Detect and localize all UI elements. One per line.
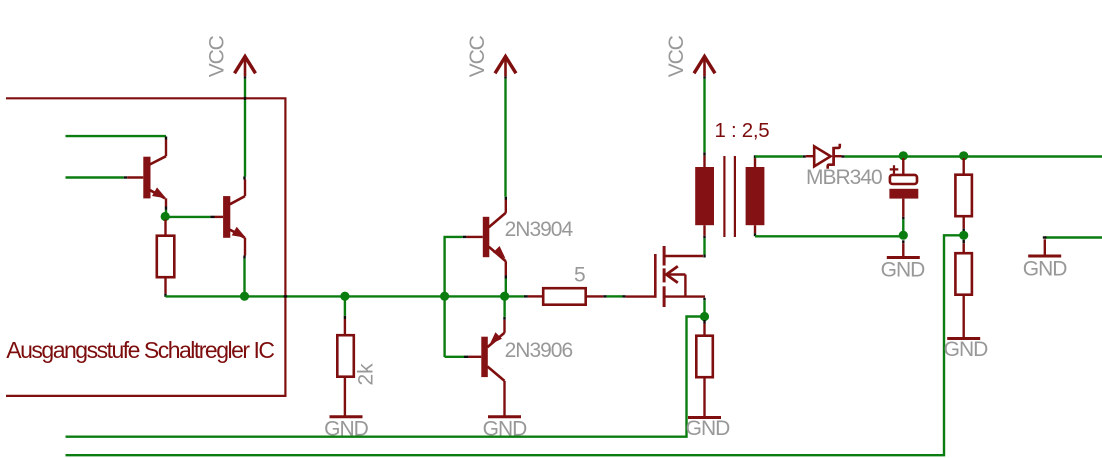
wire right gnd stub [1045, 236, 1102, 238]
resistor R-box [157, 220, 175, 294]
label 1 : 2,5 [715, 119, 770, 142]
wire cap bottom to node [902, 219, 904, 235]
resistor 2k [337, 319, 354, 416]
transistor Q1 npn [127, 140, 169, 207]
black joint vcc3 stem [703, 76, 705, 79]
black joint cap bottom [902, 217, 904, 220]
svg-text:GND: GND [686, 417, 731, 440]
node cap bottom junction dot [899, 231, 908, 240]
black joint diode cathode [842, 155, 845, 157]
black joint 3904 collector [505, 197, 507, 200]
label Ausgangsstufe Schaltregler IC [6, 337, 274, 363]
wire R5 to gate [607, 295, 623, 297]
black joint transformer primary bottom [703, 236, 705, 239]
vcc arrow 2 [495, 57, 516, 77]
svg-text:VCC: VCC [206, 35, 229, 77]
black joint box top crossing [244, 97, 246, 100]
black joint secondary bottom [754, 233, 756, 236]
junction black joint B-base [124, 176, 127, 178]
resistor R-source [696, 324, 713, 417]
svg-text:5: 5 [574, 264, 585, 287]
vcc arrow 3 [694, 57, 715, 77]
transformer TR1 [695, 156, 764, 237]
black joint divider mid [963, 229, 965, 233]
label 2N3904 [505, 218, 574, 241]
svg-text:2k: 2k [355, 363, 378, 386]
black joint Q1 emitter [165, 207, 167, 210]
black joint 3906 emitter [503, 317, 505, 320]
transistor 2N3906 pnp [468, 320, 504, 416]
black joint vcc2 stem [504, 76, 506, 79]
svg-text:GND: GND [1023, 257, 1068, 280]
black joint 3904 emitter [505, 276, 507, 279]
transistor Q2 npn [215, 180, 249, 256]
black joint Q2 base [210, 216, 214, 218]
wire output top [845, 155, 1102, 157]
wire 2k top [344, 296, 346, 316]
node source junction dot [700, 312, 709, 321]
svg-text:MBR340: MBR340 [806, 166, 882, 189]
wire input A [66, 135, 167, 137]
wire divider mid [963, 232, 965, 235]
wire bases vertical [445, 237, 463, 357]
black joint gnd4 pin [902, 240, 904, 243]
svg-text:2N3904: 2N3904 [505, 218, 574, 241]
resistor R-div-bottom [955, 243, 972, 337]
transistor 2N3904 npn [466, 200, 508, 276]
ground G5 [944, 338, 989, 361]
resistor R5 [528, 288, 603, 305]
vcc arrow 1 [235, 57, 256, 77]
node A junction dot [161, 212, 170, 221]
label 2N3906 [505, 339, 573, 362]
svg-text:VCC: VCC [466, 35, 489, 77]
black joint divider bottom pin [963, 240, 965, 244]
label MBR340 [806, 166, 882, 189]
node cap top junction dot [899, 151, 908, 160]
black joint transformer primary top [703, 152, 705, 156]
frame box Ausgangsstufe [6, 98, 285, 396]
black joint vcc1 stem [244, 76, 246, 79]
ground G1 [324, 417, 369, 441]
resistor R-div-top [955, 158, 972, 229]
node rail-2k junction dot [340, 292, 349, 301]
black joint diode anode [803, 155, 806, 157]
black joint rail-box crossing [284, 295, 288, 297]
node divider mid junction dot [959, 231, 968, 240]
wire source down [703, 300, 705, 316]
wire Q2 emitter down to rail [243, 259, 245, 297]
wire node to Q2 base [165, 216, 210, 218]
wire secondary bottom [755, 235, 903, 237]
black joint drain top [703, 255, 705, 258]
svg-text:GND: GND [944, 338, 989, 361]
wire Q1 emitter to node [165, 210, 167, 214]
label VCC 1 [206, 35, 229, 77]
capacitor C1 [889, 158, 918, 217]
black joint secondary top [754, 155, 756, 158]
wire source stub left and down [66, 317, 705, 437]
node rail-bases junction dot [440, 292, 449, 301]
black joint resistor5 left [524, 295, 528, 297]
wire feedback stub [66, 235, 964, 455]
svg-text:1 : 2,5: 1 : 2,5 [715, 119, 770, 142]
label VCC 3 [665, 35, 688, 77]
wire main rail [166, 295, 524, 297]
wire secondary top to diode [755, 155, 803, 157]
black joint Q2 emitter [243, 256, 245, 259]
wire vcc2 to 3904 [504, 79, 506, 197]
black joint right gnd [1043, 236, 1047, 238]
wire drain to transformer [703, 238, 705, 254]
ground G6 [1023, 239, 1068, 280]
mosfet M1 [626, 246, 705, 307]
wire input B [66, 176, 124, 178]
black joint resistor5 right [603, 295, 607, 297]
node rail-Q2 junction dot [240, 292, 249, 301]
wire 3906 emitter from rail node [503, 296, 505, 317]
wire vcc1 to box crossing [244, 79, 246, 97]
svg-text:Ausgangsstufe Schaltregler IC: Ausgangsstufe Schaltregler IC [6, 337, 274, 363]
black joint R-box bottom [164, 294, 166, 297]
wire base lower stub [445, 356, 464, 358]
svg-text:VCC: VCC [665, 35, 688, 77]
black joint 3906 base [464, 356, 468, 358]
label 5 [574, 264, 585, 287]
wire vcc3 to transformer [703, 79, 705, 153]
ground G2 [483, 417, 528, 441]
black joint Q1 collector [165, 137, 167, 140]
ground G4 [881, 243, 926, 281]
ground G3 [686, 417, 731, 440]
black joint 3904 base [463, 236, 467, 238]
svg-text:2N3906: 2N3906 [505, 339, 573, 362]
svg-text:GND: GND [881, 259, 926, 282]
label 2k [355, 363, 378, 386]
wire 3904 emitter to rail [505, 279, 507, 297]
wire to Q2 collector [244, 100, 246, 177]
black joint source resistor top [703, 320, 705, 324]
black joint 2k top [344, 316, 346, 319]
black joint source lead [703, 298, 705, 301]
diode D1 schottky [806, 144, 842, 169]
black joint Q2 collector [243, 177, 245, 180]
label VCC 2 [466, 35, 489, 77]
node rail-output junction dot [500, 292, 509, 301]
node divider top junction dot [959, 151, 968, 160]
black joint gate lead [623, 295, 626, 297]
